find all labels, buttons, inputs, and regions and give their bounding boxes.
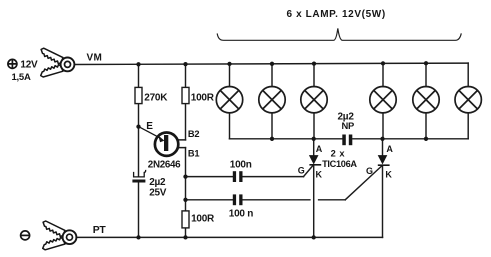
svg-text:PT: PT xyxy=(93,225,107,236)
svg-text:2N2646: 2N2646 xyxy=(148,160,181,171)
svg-text:100R: 100R xyxy=(191,214,215,225)
svg-text:A: A xyxy=(316,144,323,154)
svg-text:12V: 12V xyxy=(20,60,38,71)
svg-text:100 n: 100 n xyxy=(229,209,253,220)
svg-text:K: K xyxy=(385,170,392,180)
svg-text:2µ2: 2µ2 xyxy=(149,177,166,188)
svg-text:G: G xyxy=(366,166,373,176)
svg-text:6 x LAMP. 12V(5W): 6 x LAMP. 12V(5W) xyxy=(287,9,386,20)
svg-text:G: G xyxy=(298,165,305,175)
svg-text:1,5A: 1,5A xyxy=(12,72,31,83)
svg-text:TIC106A: TIC106A xyxy=(322,159,357,169)
svg-text:K: K xyxy=(316,169,323,179)
svg-text:B1: B1 xyxy=(188,149,199,159)
svg-text:NP: NP xyxy=(342,120,355,131)
svg-text:B2: B2 xyxy=(188,129,199,139)
svg-text:100n: 100n xyxy=(230,159,252,170)
svg-text:VM: VM xyxy=(87,53,103,64)
svg-text:100R: 100R xyxy=(191,93,215,104)
svg-text:E: E xyxy=(146,121,153,132)
svg-text:270K: 270K xyxy=(144,93,168,104)
svg-text:25V: 25V xyxy=(149,187,167,198)
svg-text:2 x: 2 x xyxy=(331,148,346,158)
svg-text:A: A xyxy=(386,144,393,154)
